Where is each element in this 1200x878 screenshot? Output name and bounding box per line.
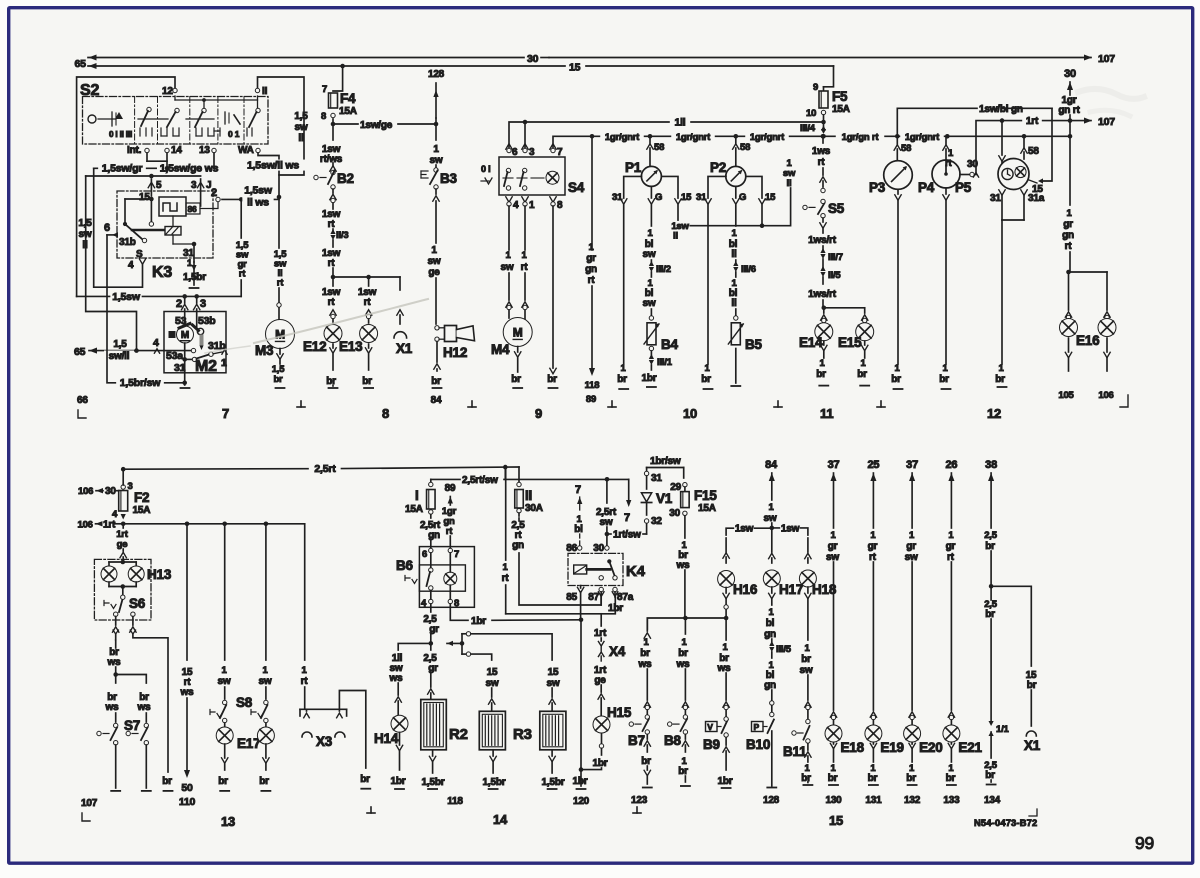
fuse II 30A (515, 467, 543, 514)
svg-text:br: br (641, 756, 651, 767)
ground E17 left (218, 744, 229, 791)
svg-text:M4: M4 (491, 342, 510, 357)
svg-text:9: 9 (535, 406, 542, 421)
svg-text:ws: ws (389, 673, 404, 684)
svg-text:P1: P1 (625, 160, 642, 175)
svg-text:7: 7 (454, 549, 459, 560)
wire X4 riser (594, 614, 607, 641)
svg-text:br: br (678, 766, 688, 777)
svg-text:84: 84 (431, 395, 442, 406)
motor M4 blower motor (491, 318, 532, 358)
svg-text:br: br (678, 648, 688, 659)
svg-text:15: 15 (569, 62, 581, 74)
motor M2 wiper motor assembly box (164, 312, 227, 376)
svg-text:1gr/gnrt: 1gr/gnrt (905, 132, 940, 143)
wire 1sw li lighting link (671, 158, 796, 242)
svg-text:1,5sw: 1,5sw (244, 185, 273, 197)
connector X1 (top) (394, 310, 413, 356)
wire 2,5rt bus (121, 463, 519, 475)
wire E16 tails 105 106 (1058, 338, 1113, 401)
node 38 arrow / 2,5br column (984, 459, 998, 589)
pencil artifact stroke section 8 (254, 299, 428, 343)
svg-text:4: 4 (153, 337, 159, 349)
svg-text:14: 14 (171, 145, 182, 156)
svg-text:1: 1 (431, 245, 437, 256)
svg-text:5: 5 (156, 180, 162, 191)
svg-text:B5: B5 (745, 337, 763, 352)
svg-text:ge: ge (117, 539, 128, 550)
svg-text:H15: H15 (607, 705, 632, 720)
switch B9 vacuum switch (703, 717, 728, 752)
svg-text:S6: S6 (129, 596, 146, 611)
wire K3-2 output 1,5sw li ws (222, 185, 281, 209)
svg-text:13: 13 (199, 145, 210, 156)
wire fuse II to K4-30 2,5 rt gn (511, 513, 525, 551)
svg-text:rt: rt (328, 258, 336, 269)
svg-text:1br: 1br (718, 776, 733, 787)
wire lamp feed rail E12 E13 X1 (331, 275, 400, 290)
svg-text:ws: ws (676, 560, 691, 571)
svg-text:H16: H16 (733, 582, 758, 597)
svg-text:B11: B11 (783, 744, 807, 759)
svg-text:89: 89 (445, 483, 456, 494)
svg-text:10: 10 (806, 108, 816, 119)
wire B9-ground trunk node 120 (573, 620, 590, 807)
wire bus 15 (terminal 15 rail) (88, 63, 834, 87)
wire P1-G sender line (643, 187, 671, 321)
wire 2,5rt/sw line (431, 467, 629, 486)
svg-text:br: br (259, 776, 269, 787)
svg-text:X1: X1 (396, 341, 413, 356)
svg-text:S5: S5 (828, 201, 845, 216)
wire B6-7 to node 89 (442, 483, 457, 548)
svg-text:ge: ge (428, 267, 440, 278)
switch S4 heater blower switch (481, 144, 585, 211)
svg-text:1gr/gnrt: 1gr/gnrt (605, 132, 640, 143)
svg-text:V: V (707, 722, 713, 732)
svg-text:br: br (218, 776, 228, 787)
svg-text:131: 131 (865, 795, 882, 806)
svg-text:53a: 53a (166, 350, 183, 362)
switch S7 pole 1 (97, 692, 140, 745)
lamp E16 right (1076, 312, 1116, 348)
svg-text:15: 15 (765, 192, 776, 203)
wire S4-1 to M4 (521, 206, 529, 320)
svg-text:1ws: 1ws (812, 146, 831, 157)
svg-text:III/1: III/1 (657, 357, 673, 368)
svg-text:br: br (816, 369, 826, 380)
svg-text:38: 38 (985, 459, 997, 471)
svg-text:M3: M3 (255, 343, 274, 358)
svg-text:II/5: II/5 (828, 270, 841, 281)
svg-text:ws: ws (137, 702, 152, 713)
svg-text:rt: rt (301, 676, 309, 687)
svg-text:F4: F4 (340, 91, 356, 106)
node 30 label (527, 53, 549, 65)
svg-text:sw: sw (643, 298, 656, 309)
ground symbol after 13 (367, 807, 375, 813)
wire fuse II to 87 via y605 (519, 518, 601, 605)
fuse F5 15A (806, 82, 850, 124)
section label 11 (820, 406, 833, 421)
svg-text:134: 134 (984, 795, 1001, 806)
svg-text:2: 2 (211, 187, 217, 199)
svg-text:106: 106 (78, 520, 93, 531)
svg-text:32: 32 (651, 516, 662, 527)
ground M4 (511, 347, 522, 389)
svg-text:gn: gn (512, 540, 524, 551)
ground symbol between 9 and 10 (608, 401, 616, 407)
faint smudge top right (1078, 89, 1144, 99)
switch B2 (brake light switch) (314, 163, 354, 189)
svg-text:1rt: 1rt (103, 520, 116, 531)
wire S2-Int jog (147, 153, 167, 161)
svg-text:P5: P5 (955, 180, 972, 195)
svg-text:M2: M2 (195, 358, 217, 375)
svg-text:br: br (828, 773, 838, 784)
wire P1-31 to ground (612, 176, 642, 389)
svg-text:107: 107 (1098, 116, 1115, 128)
svg-text:M: M (181, 330, 189, 341)
svg-text:H14: H14 (374, 731, 399, 746)
svg-text:sw: sw (764, 513, 777, 524)
wire S6 outputs (113, 617, 169, 773)
svg-text:E21: E21 (958, 740, 982, 755)
wire H16 to br/ws bus (723, 588, 729, 619)
switch B10 pressure switch (746, 720, 774, 753)
wire 1gr/gnrt bus (592, 132, 1072, 143)
svg-text:31: 31 (651, 473, 662, 484)
switch S7 pole 2 (126, 692, 151, 745)
lamp E16 left (1060, 312, 1078, 337)
wire B4 to ground III/1 (642, 351, 673, 387)
wire 1li feed line (509, 117, 824, 152)
svg-text:rt: rt (521, 262, 529, 273)
svg-text:65: 65 (75, 58, 87, 70)
lamp E17 left (216, 723, 260, 751)
wire 1rt line to 107 (976, 116, 1092, 175)
svg-text:7: 7 (575, 484, 581, 496)
svg-text:8: 8 (321, 111, 326, 122)
svg-text:R2: R2 (449, 726, 468, 743)
svg-text:15: 15 (139, 192, 150, 203)
svg-text:58: 58 (740, 142, 750, 153)
wire H15 to ground trunk (581, 734, 608, 770)
svg-text:ws: ws (638, 659, 653, 670)
svg-text:S7: S7 (124, 718, 140, 733)
svg-text:gn: gn (1062, 230, 1074, 241)
svg-text:P4: P4 (918, 180, 935, 195)
svg-text:8: 8 (454, 598, 459, 609)
svg-text:br: br (362, 376, 372, 387)
svg-text:br: br (985, 609, 995, 620)
svg-text:1sw: 1sw (735, 524, 754, 535)
node 30 arrow top right (1064, 68, 1076, 95)
wire S8 pole2 feed 1 sw (259, 524, 272, 705)
svg-text:15A: 15A (339, 106, 357, 117)
label 1,5 sw li (right of S2) (294, 111, 308, 144)
svg-text:30: 30 (105, 486, 116, 497)
svg-text:1,5br: 1,5br (483, 777, 506, 788)
svg-text:B10: B10 (746, 737, 770, 752)
svg-text:E18: E18 (841, 740, 865, 755)
ground S7 pole1 node 107 (81, 745, 120, 821)
wire S8 pole1 feed 1 sw (218, 524, 231, 705)
switch S2 blade 1 (141, 107, 151, 126)
svg-text:123: 123 (631, 795, 648, 806)
svg-text:G: G (655, 192, 662, 203)
svg-text:2,5: 2,5 (984, 530, 998, 541)
svg-text:E19: E19 (880, 740, 903, 755)
svg-text:4: 4 (128, 260, 134, 271)
wire S6 left output to S7 (107, 640, 147, 683)
svg-text:1br: 1br (642, 373, 657, 384)
svg-text:III/6: III/6 (741, 264, 756, 275)
ground K3 (190, 287, 199, 289)
svg-text:br: br (547, 374, 557, 385)
connector X4 (598, 642, 625, 662)
svg-text:li: li (298, 133, 304, 144)
svg-text:N54-0473-B72: N54-0473-B72 (974, 818, 1037, 828)
node 107 label top (1098, 53, 1115, 65)
lamp E14 (799, 315, 833, 350)
section label 9 (535, 406, 542, 421)
svg-text:br: br (617, 374, 627, 385)
svg-text:sw: sw (643, 249, 656, 260)
svg-text:1: 1 (433, 144, 439, 155)
svg-text:E15: E15 (838, 335, 862, 350)
gauge P1 fuel gauge (625, 136, 664, 186)
node 128 label (428, 69, 445, 80)
svg-text:II/3: II/3 (336, 230, 348, 241)
resistor R2 heater element (421, 700, 468, 750)
wire K4-85 (566, 586, 584, 620)
wire E14 E15 branch (824, 308, 865, 313)
switch S2 wiper switch box (80, 82, 268, 144)
svg-text:15: 15 (487, 667, 498, 678)
ground H14 (391, 733, 406, 790)
svg-text:P2: P2 (710, 160, 726, 175)
document number N54-0473-B72 (974, 809, 1037, 828)
svg-text:br: br (891, 374, 901, 385)
lamp E13 (339, 310, 378, 354)
svg-text:K3: K3 (152, 264, 172, 281)
svg-text:31: 31 (990, 193, 1001, 204)
svg-text:87a: 87a (617, 592, 634, 603)
svg-text:6: 6 (104, 222, 110, 234)
wire S5 feed 1ws rt (812, 134, 831, 193)
wire 1rt line node 106 (78, 520, 305, 531)
svg-text:gr: gr (1063, 219, 1073, 230)
switch S2 blade 3 (195, 102, 206, 127)
svg-text:F5: F5 (832, 89, 848, 104)
switch B11 (783, 726, 810, 759)
svg-text:X4: X4 (609, 644, 626, 659)
svg-text:III/4: III/4 (800, 123, 816, 134)
svg-text:br: br (985, 541, 995, 552)
wire F15 down 1 br ws (676, 516, 691, 621)
svg-text:30: 30 (1064, 68, 1076, 80)
svg-text:II: II (525, 488, 532, 503)
svg-text:1,5br: 1,5br (183, 272, 206, 283)
lamp E21 (943, 725, 983, 755)
svg-text:31a: 31a (1028, 193, 1045, 204)
svg-text:rt/ws: rt/ws (320, 154, 343, 165)
lamp E17 right (257, 723, 274, 744)
svg-text:li: li (731, 298, 737, 309)
svg-text:110: 110 (179, 796, 196, 808)
svg-text:1,5sw: 1,5sw (112, 291, 141, 303)
svg-text:7: 7 (624, 512, 630, 524)
svg-text:86: 86 (188, 204, 198, 214)
svg-text:rt: rt (277, 278, 284, 289)
svg-text:sw: sw (547, 678, 560, 689)
lamp H15 (593, 705, 632, 733)
ground E14 (816, 341, 828, 386)
svg-text:rt: rt (328, 297, 336, 308)
svg-text:1: 1 (221, 357, 227, 369)
svg-text:7: 7 (222, 406, 229, 421)
svg-text:53b: 53b (198, 315, 216, 327)
svg-text:R3: R3 (513, 726, 532, 743)
lamp H17 (763, 528, 803, 597)
svg-text:B8: B8 (664, 733, 682, 748)
svg-text:0 I II III: 0 I II III (109, 130, 132, 139)
wire S2 terminal II feed loop (258, 77, 305, 175)
svg-text:B3: B3 (440, 171, 458, 186)
svg-text:br: br (640, 648, 650, 659)
ground right S6 output (162, 776, 172, 791)
svg-text:H12: H12 (443, 345, 467, 360)
wire P5-31 31a (990, 190, 1045, 387)
svg-text:1gr/gnrt: 1gr/gnrt (676, 132, 711, 143)
node 7 arrow / K4-86 reference (574, 484, 583, 550)
svg-text:III/5: III/5 (776, 644, 792, 655)
svg-text:S8: S8 (236, 695, 253, 710)
wire labels 1sw rt for E12 E13 (322, 287, 377, 308)
svg-text:1/1: 1/1 (996, 724, 1010, 735)
wire 1,5sw/gr line L1 (94, 163, 221, 288)
wire III/4 below F5 (800, 122, 826, 139)
svg-text:84: 84 (765, 459, 778, 471)
svg-text:87: 87 (588, 592, 599, 603)
svg-text:li: li (731, 249, 737, 260)
svg-text:130: 130 (825, 795, 842, 806)
lamp E19 (865, 725, 904, 755)
wire K3-31 to ground (183, 258, 206, 285)
switch S8 pole 1 (210, 695, 253, 723)
svg-text:37: 37 (906, 459, 918, 471)
wire S2-WA to node li/ws (241, 153, 305, 197)
wire S2 terminal 12 feed loop (77, 77, 175, 296)
wire M2 terminal 2 (176, 296, 188, 326)
page number 99 (1135, 833, 1154, 853)
wire B9 column below bus (717, 618, 732, 716)
svg-text:1li: 1li (674, 117, 685, 129)
switch B6 heated rear window switch (396, 547, 474, 609)
svg-text:128: 128 (763, 795, 780, 806)
svg-text:1sw: 1sw (781, 524, 800, 535)
svg-text:br: br (995, 374, 1005, 385)
svg-text:1br: 1br (593, 758, 608, 769)
svg-text:sw/li: sw/li (109, 351, 130, 362)
node 37 arrow / lamp E20 column (905, 459, 918, 725)
svg-text:118: 118 (585, 380, 600, 391)
lamp H14 (374, 715, 408, 746)
ground E21 node 133 (943, 743, 960, 807)
wire S2-14 to L1 (165, 153, 170, 171)
svg-text:107: 107 (81, 798, 98, 809)
wire B10 node 128 (763, 731, 780, 806)
svg-text:rt: rt (328, 219, 336, 230)
wire P2-31 to ground (696, 176, 726, 389)
relay K3 wiper interval relay (104, 179, 220, 281)
svg-text:II: II (262, 86, 268, 97)
wire 1,5 sw li rt to M3 (274, 197, 288, 319)
svg-text:sw: sw (79, 229, 92, 240)
svg-text:gn: gn (764, 629, 776, 640)
wire K4-87 to fuse II (588, 587, 604, 605)
svg-text:7: 7 (322, 84, 327, 95)
wire 1sw/ge from F4-8 (331, 119, 436, 140)
svg-text:128: 128 (428, 69, 445, 80)
svg-text:25: 25 (867, 459, 879, 471)
wire S5 to E14/E15 junction (808, 218, 843, 310)
svg-text:1,5: 1,5 (294, 111, 308, 122)
svg-text:1br: 1br (391, 776, 406, 787)
svg-text:br: br (162, 776, 172, 787)
svg-text:br: br (939, 374, 949, 385)
ground symbol between 7 and 8 (297, 401, 305, 407)
section label 10 (683, 406, 697, 421)
svg-text:br: br (946, 773, 956, 784)
wire line L2 to K3-5 and K3-J (86, 174, 201, 351)
svg-text:li: li (787, 178, 792, 189)
section label 12 (987, 406, 1001, 421)
node 65 label (75, 58, 87, 70)
svg-text:120: 120 (573, 796, 590, 807)
svg-text:2,5rt/sw: 2,5rt/sw (462, 475, 498, 486)
svg-text:ws: ws (105, 702, 120, 713)
node 37 arrow / lamp E18 column (826, 459, 839, 725)
resistor R3 heater element b (540, 711, 566, 750)
svg-text:rt: rt (502, 573, 510, 584)
svg-text:1ws/rt: 1ws/rt (808, 235, 837, 246)
svg-text:B6: B6 (396, 558, 414, 573)
lamp H16 (718, 538, 758, 597)
fuse F4 15A (321, 84, 357, 122)
svg-text:1gr/gnrt: 1gr/gnrt (750, 132, 785, 143)
svg-text:ws: ws (676, 659, 691, 670)
svg-text:sw: sw (428, 256, 441, 267)
svg-text:sw: sw (800, 665, 813, 676)
svg-text:12: 12 (162, 86, 173, 97)
svg-text:1: 1 (529, 200, 535, 211)
wire B6-4 output 2,5 gr (423, 604, 439, 646)
svg-text:118: 118 (447, 796, 463, 807)
svg-text:br: br (801, 773, 811, 784)
ground B11 (801, 744, 812, 786)
lamp E15 (838, 315, 874, 350)
ground E15 (857, 341, 869, 386)
svg-text:50: 50 (181, 782, 193, 794)
svg-text:6: 6 (422, 549, 427, 560)
svg-text:br: br (801, 654, 811, 665)
svg-text:br: br (273, 374, 283, 385)
svg-text:1: 1 (909, 530, 915, 541)
svg-text:1,5sw/gr: 1,5sw/gr (102, 163, 143, 175)
svg-text:br: br (857, 369, 867, 380)
